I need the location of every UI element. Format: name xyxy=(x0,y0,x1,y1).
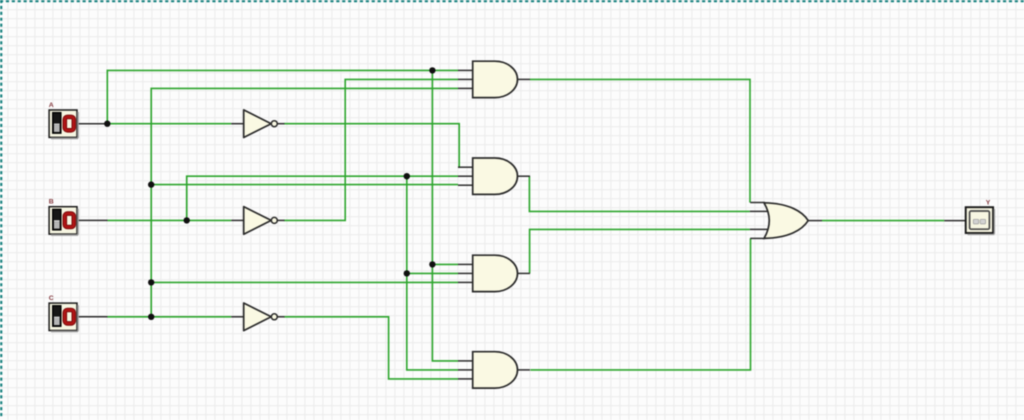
OR gate U8 xyxy=(750,203,822,239)
AND gate U6 xyxy=(458,255,530,291)
wire net C from switch to NOT3 xyxy=(77,316,231,318)
junction node A xyxy=(104,121,110,127)
junction node B xyxy=(184,217,190,223)
junction node C xyxy=(148,314,154,320)
junction node C AND3 xyxy=(148,279,154,285)
wire AND4 output to OR input 4 xyxy=(530,238,750,370)
junction node B AND3 xyxy=(404,270,410,276)
NOT gate U2 inverter xyxy=(231,207,284,235)
junction node A AND3 xyxy=(429,261,435,267)
wire net A to NOT1 input xyxy=(107,123,231,125)
AND gate U5 xyxy=(458,158,530,194)
wire net A junction up to AND1 input 1 xyxy=(107,70,458,123)
wire net A from switch to junction xyxy=(77,123,107,125)
NOT gate U1 inverter xyxy=(231,110,284,138)
svg-text:Y: Y xyxy=(986,199,991,206)
label A xyxy=(49,102,54,109)
sheet border top xyxy=(0,0,1024,2)
label B xyxy=(49,199,54,206)
label C xyxy=(49,295,54,302)
wire OR output to probe Y xyxy=(822,220,966,222)
junction node C AND2 xyxy=(148,181,154,187)
logic toggle A xyxy=(49,110,78,138)
wire net NOT-C to AND4 input 3 xyxy=(284,317,458,379)
wire net B branch up to AND2 input 2 xyxy=(187,176,458,220)
logic probe Y xyxy=(966,207,995,234)
svg-text:C: C xyxy=(49,295,54,302)
wire AND2 output to OR input 2 xyxy=(529,176,749,211)
NOT gate U3 inverter xyxy=(231,303,284,331)
svg-text:B: B xyxy=(49,199,54,206)
wire AND3 output to OR input 3 xyxy=(530,229,750,273)
wire net A vertical branch to AND3 and AND4 xyxy=(432,70,458,361)
wire net NOT-A to AND2 input 1 xyxy=(284,124,459,168)
sheet border left xyxy=(0,0,2,417)
junction node A top xyxy=(429,67,435,73)
logic toggle C xyxy=(49,303,78,331)
AND gate U7 xyxy=(458,352,530,388)
wire net B vertical branch to AND3 and AND4 xyxy=(407,176,458,370)
logic toggle B xyxy=(49,207,78,235)
AND gate U4 xyxy=(458,61,530,97)
svg-text:A: A xyxy=(49,102,54,109)
wire AND1 output to OR input 1 xyxy=(530,79,750,202)
label Y xyxy=(986,199,991,206)
wire net C vertical branch to AND1 AND2 AND3 xyxy=(151,88,458,316)
wire net NOT-B to AND1 input 2 xyxy=(284,79,458,220)
wire net B from switch to NOT2 xyxy=(77,219,231,221)
junction node B mid xyxy=(404,173,410,179)
